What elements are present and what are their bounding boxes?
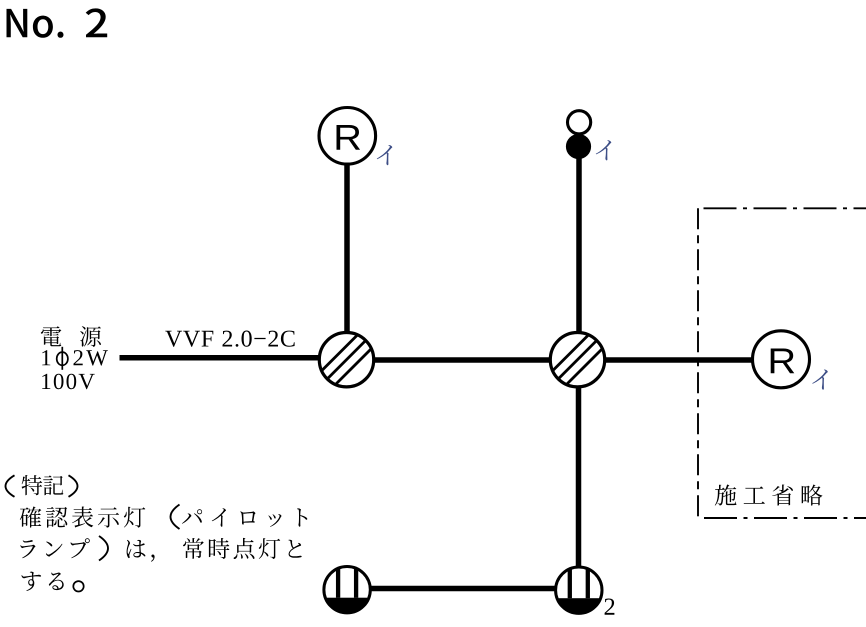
note line 4 する	[22, 572, 64, 591]
label イ (top-left lamp)	[377, 145, 393, 165]
note line3 paren )	[99, 536, 108, 561]
wire J2 to outlet right	[576, 387, 582, 568]
note header 特記	[22, 475, 64, 495]
note line 3 ランプ）は，常時点灯と	[20, 538, 301, 562]
lamp receptacle R (top-left)	[319, 108, 376, 165]
label VVF 2.0-2C	[165, 331, 294, 347]
joint box J2	[541, 323, 615, 397]
wire power to joint box J1	[120, 355, 320, 361]
label 2 (double outlet)	[605, 599, 615, 615]
note line 2 確認表示灯（パイロット	[20, 507, 308, 528]
note header paren (	[6, 475, 15, 497]
label 1phi2W 2W	[74, 350, 108, 366]
omitted area boundary (dash-dot box)	[698, 208, 866, 518]
wire outlet left to outlet right	[371, 586, 556, 592]
joint box J1	[310, 323, 384, 397]
wire ceiling light to J2	[576, 157, 582, 333]
wire lamp R left to J1	[344, 163, 350, 334]
label 100V	[42, 374, 94, 390]
label 1phi2W phi symbol	[57, 347, 68, 370]
ceiling light with pilot (top-middle)	[566, 111, 591, 159]
label 源	[80, 326, 101, 347]
label 2 (title)	[86, 8, 108, 37]
lamp receptacle R (right, inside omitted area)	[753, 331, 810, 388]
wall outlet OL	[324, 567, 370, 614]
note line2 paren (	[171, 505, 180, 530]
label イ (ceiling light)	[596, 140, 612, 160]
label No.	[7, 9, 64, 38]
label 1phi2W digit 1	[42, 350, 50, 365]
label 電	[41, 326, 62, 346]
wire J2 to lamp R right	[605, 357, 753, 363]
note line 4 。	[73, 581, 83, 591]
label 施工省略	[715, 485, 823, 506]
wall outlet OR	[556, 567, 602, 614]
note header paren )	[69, 475, 78, 497]
label イ (right lamp)	[812, 370, 828, 390]
wire J1 to J2	[374, 357, 551, 363]
